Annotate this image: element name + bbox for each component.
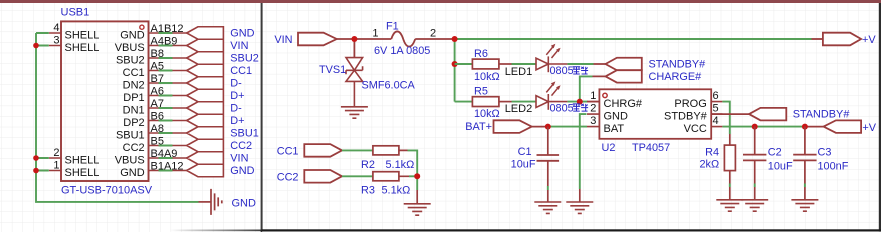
svg-text:GND: GND — [230, 165, 254, 177]
svg-text:U2: U2 — [602, 142, 616, 154]
svg-text:2: 2 — [590, 102, 596, 114]
svg-text:B7: B7 — [151, 73, 164, 85]
svg-text:DP1: DP1 — [123, 92, 144, 104]
svg-text:D-: D- — [230, 102, 242, 114]
svg-text:B4A9: B4A9 — [151, 148, 178, 160]
svg-text:SHELL: SHELL — [65, 167, 100, 179]
svg-text:+V: +V — [862, 34, 876, 46]
svg-text:CC2: CC2 — [230, 140, 252, 152]
svg-text:TVS1: TVS1 — [319, 64, 346, 76]
svg-text:CC2: CC2 — [277, 171, 299, 183]
svg-text:4: 4 — [53, 22, 59, 34]
svg-text:STANDBY#: STANDBY# — [649, 58, 706, 70]
svg-text:SBU1: SBU1 — [230, 127, 258, 139]
svg-text:1: 1 — [53, 159, 59, 171]
svg-text:1: 1 — [372, 28, 378, 40]
svg-text:100nF: 100nF — [818, 161, 849, 173]
svg-text:PROG: PROG — [674, 98, 706, 110]
svg-text:B6: B6 — [151, 110, 164, 122]
svg-text:R2: R2 — [361, 159, 375, 171]
svg-text:R4: R4 — [705, 146, 719, 158]
svg-text:SBU1: SBU1 — [116, 129, 145, 141]
svg-text:CC2: CC2 — [123, 142, 145, 154]
svg-text:2: 2 — [53, 147, 59, 159]
svg-text:CHRG#: CHRG# — [604, 98, 643, 110]
svg-text:A6: A6 — [151, 85, 164, 97]
svg-text:+V: +V — [862, 122, 876, 134]
svg-text:A8: A8 — [151, 123, 164, 135]
svg-text:B8: B8 — [151, 48, 164, 60]
svg-text:VIN: VIN — [230, 40, 248, 52]
svg-text:GND: GND — [230, 27, 254, 39]
svg-text:VBUS: VBUS — [115, 154, 145, 166]
svg-text:TP4057: TP4057 — [632, 142, 670, 154]
svg-text:5.1kΩ: 5.1kΩ — [386, 159, 415, 171]
svg-text:SHELL: SHELL — [65, 154, 100, 166]
svg-text:B1A12: B1A12 — [151, 160, 184, 172]
svg-text:VIN: VIN — [274, 34, 292, 46]
svg-text:6V 1A 0805: 6V 1A 0805 — [374, 45, 430, 57]
svg-text:VCC: VCC — [684, 123, 707, 135]
svg-text:DN1: DN1 — [123, 104, 145, 116]
svg-text:GT-USB-7010ASV: GT-USB-7010ASV — [61, 184, 153, 196]
svg-text:BAT+: BAT+ — [465, 121, 492, 133]
svg-text:B5: B5 — [151, 135, 164, 147]
svg-text:SHELL: SHELL — [65, 42, 100, 54]
svg-text:DN2: DN2 — [123, 79, 145, 91]
svg-text:GND: GND — [120, 167, 145, 179]
svg-text:A4B9: A4B9 — [151, 35, 178, 47]
svg-text:C3: C3 — [818, 147, 832, 159]
svg-text:D+: D+ — [230, 90, 244, 102]
svg-text:CC1: CC1 — [230, 65, 252, 77]
svg-text:2: 2 — [430, 28, 436, 40]
svg-text:CHARGE#: CHARGE# — [649, 71, 702, 83]
svg-text:SBU2: SBU2 — [116, 54, 145, 66]
svg-text:10uF: 10uF — [768, 161, 793, 173]
svg-text:5: 5 — [713, 102, 719, 114]
svg-text:USB1: USB1 — [61, 6, 90, 18]
svg-text:LED2: LED2 — [505, 103, 533, 115]
svg-text:VIN: VIN — [230, 152, 248, 164]
svg-text:GND: GND — [232, 197, 257, 209]
svg-text:R6: R6 — [474, 48, 488, 60]
svg-text:GND: GND — [120, 29, 145, 41]
svg-text:CC1: CC1 — [123, 67, 145, 79]
svg-text:0805: 0805 — [550, 65, 574, 77]
svg-text:SBU2: SBU2 — [230, 52, 258, 64]
svg-text:R3: R3 — [361, 184, 375, 196]
svg-text:0805: 0805 — [550, 102, 574, 114]
svg-text:4: 4 — [713, 115, 719, 127]
svg-text:10kΩ: 10kΩ — [474, 71, 500, 83]
svg-text:2kΩ: 2kΩ — [700, 159, 720, 171]
svg-text:A7: A7 — [151, 98, 164, 110]
svg-text:10kΩ: 10kΩ — [474, 108, 500, 120]
svg-text:STANDBY#: STANDBY# — [793, 109, 850, 121]
svg-text:BAT: BAT — [604, 123, 625, 135]
svg-text:10uF: 10uF — [511, 159, 536, 171]
svg-text:1: 1 — [590, 90, 596, 102]
svg-text:SMF6.0CA: SMF6.0CA — [362, 79, 416, 91]
svg-text:R5: R5 — [474, 85, 488, 97]
svg-text:D+: D+ — [230, 115, 244, 127]
svg-text:STDBY#: STDBY# — [664, 110, 708, 122]
svg-text:SHELL: SHELL — [65, 29, 100, 41]
svg-text:D-: D- — [230, 77, 242, 89]
svg-text:C1: C1 — [518, 146, 532, 158]
svg-text:5.1kΩ: 5.1kΩ — [382, 184, 411, 196]
svg-text:GND: GND — [604, 110, 629, 122]
svg-text:6: 6 — [713, 90, 719, 102]
svg-text:A5: A5 — [151, 60, 164, 72]
svg-text:DP2: DP2 — [123, 117, 144, 129]
svg-text:3: 3 — [53, 34, 59, 46]
svg-text:C2: C2 — [768, 147, 782, 159]
svg-text:F1: F1 — [386, 20, 399, 32]
svg-text:LED1: LED1 — [505, 66, 533, 78]
svg-text:VBUS: VBUS — [115, 42, 145, 54]
svg-text:CC1: CC1 — [277, 145, 299, 157]
svg-text:3: 3 — [590, 115, 596, 127]
svg-text:A1B12: A1B12 — [151, 23, 184, 35]
